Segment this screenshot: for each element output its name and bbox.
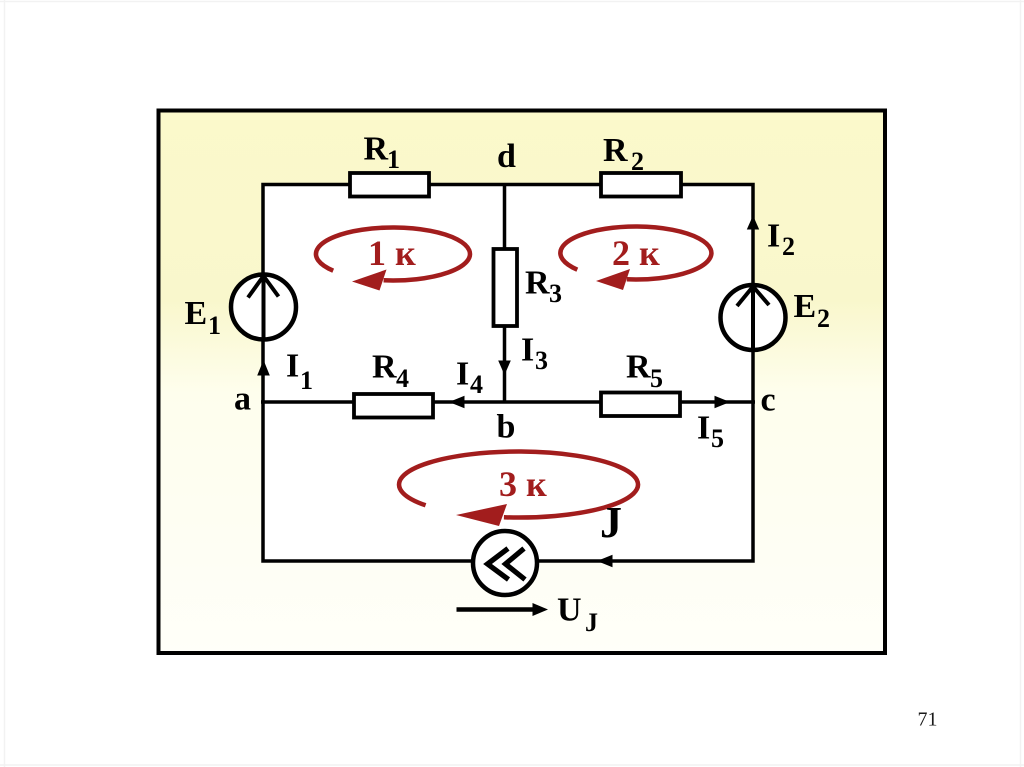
svg-text:R: R — [364, 131, 389, 168]
svg-text:3 к: 3 к — [499, 464, 547, 504]
svg-text:1: 1 — [208, 311, 221, 340]
svg-text:1 к: 1 к — [368, 233, 416, 273]
svg-text:I: I — [697, 410, 710, 447]
svg-text:2: 2 — [631, 147, 644, 176]
svg-text:R: R — [525, 265, 550, 302]
svg-text:R: R — [372, 349, 397, 386]
svg-text:c: c — [761, 382, 776, 419]
svg-text:3: 3 — [549, 279, 562, 308]
svg-text:2: 2 — [817, 304, 830, 333]
svg-text:5: 5 — [650, 364, 663, 393]
svg-text:I: I — [767, 218, 780, 255]
svg-text:d: d — [497, 138, 516, 175]
svg-text:3: 3 — [535, 346, 548, 375]
svg-text:I: I — [521, 332, 534, 369]
svg-text:4: 4 — [396, 364, 409, 393]
svg-text:2: 2 — [782, 232, 795, 261]
svg-text:71: 71 — [918, 709, 938, 731]
svg-text:5: 5 — [711, 424, 724, 453]
svg-text:1: 1 — [387, 145, 400, 174]
svg-text:E: E — [185, 295, 208, 332]
svg-text:a: a — [234, 381, 251, 418]
svg-text:2 к: 2 к — [612, 233, 660, 273]
svg-text:R: R — [626, 349, 651, 386]
svg-text:1: 1 — [300, 366, 313, 395]
svg-text:I: I — [286, 348, 299, 385]
svg-text:4: 4 — [470, 370, 483, 399]
svg-text:b: b — [497, 409, 516, 446]
svg-text:U: U — [557, 592, 582, 629]
svg-text:R: R — [603, 132, 628, 169]
svg-text:I: I — [456, 356, 469, 393]
svg-text:J: J — [600, 498, 622, 547]
svg-text:J: J — [585, 608, 598, 637]
svg-text:E: E — [794, 288, 817, 325]
